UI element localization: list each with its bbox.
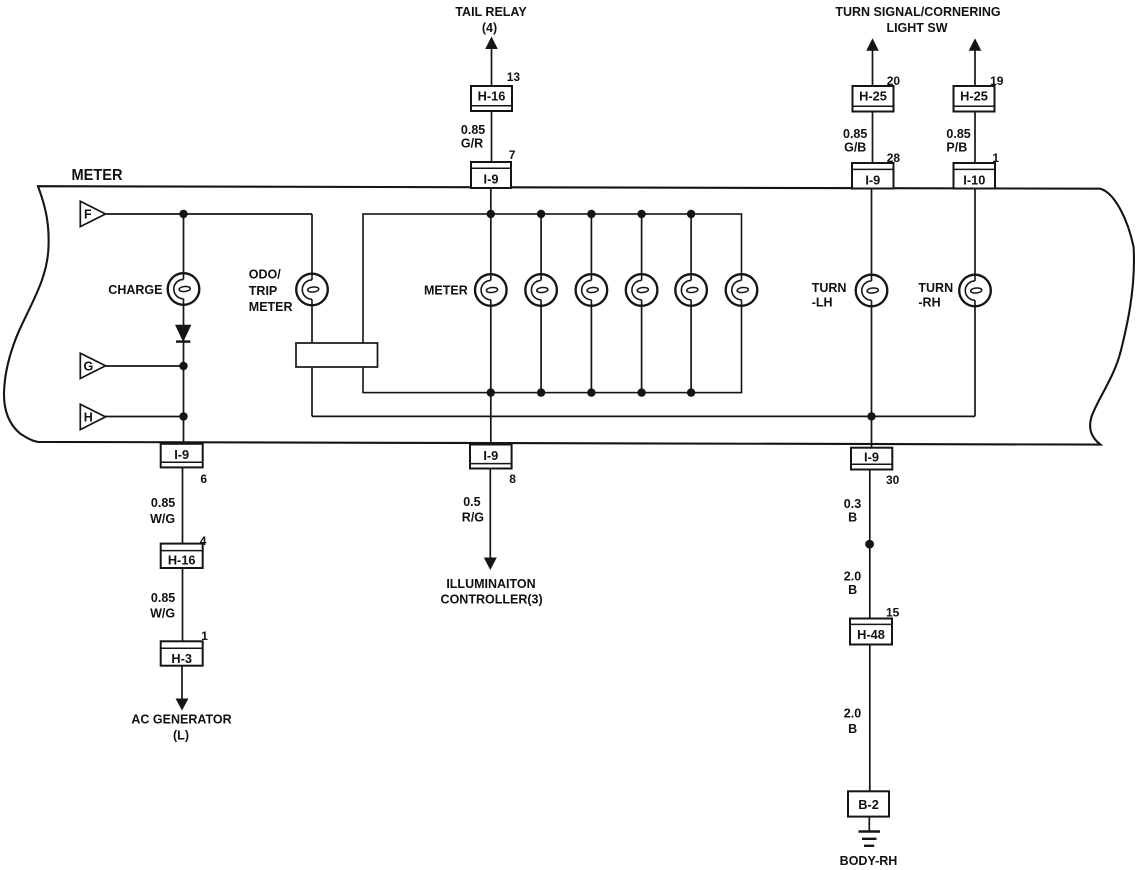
svg-text:H-25: H-25 (960, 88, 988, 103)
node top bus junction 4 (637, 210, 645, 218)
wire to H-25 pin 19 (974, 49, 976, 86)
svg-text:G: G (84, 360, 94, 374)
lamp CHARGE (168, 273, 200, 305)
METER component body outline (4, 186, 1134, 444)
svg-text:I-10: I-10 (963, 172, 985, 187)
svg-text:W/G: W/G (150, 607, 175, 621)
svg-text:B: B (848, 583, 857, 597)
wire to H-25 pin 20 (872, 49, 874, 86)
connector H-3 (161, 641, 203, 665)
svg-text:P/B: P/B (946, 141, 967, 155)
svg-text:2.0: 2.0 (844, 707, 861, 721)
wire H-16 to I-9 (491, 111, 493, 162)
svg-text:I-9: I-9 (174, 447, 189, 462)
connector I-9 pin 8 (box, bottom center) (470, 445, 512, 469)
svg-text:H-48: H-48 (857, 627, 885, 642)
arrow to illumination controller (484, 558, 497, 571)
svg-text:H: H (84, 411, 93, 425)
svg-text:ODO/: ODO/ (249, 268, 281, 282)
node bottom bus junction 5 (687, 388, 695, 396)
svg-text:13: 13 (507, 70, 521, 84)
terminal H (80, 404, 105, 429)
lamp meter 4 (626, 274, 658, 306)
node bottom bus junction 2 (537, 388, 545, 396)
svg-text:H-25: H-25 (859, 88, 887, 103)
svg-text:LIGHT SW: LIGHT SW (886, 21, 947, 35)
node top bus junction 2 (537, 210, 545, 218)
svg-text:BODY-RH: BODY-RH (840, 854, 898, 868)
wire odo branch vertical (311, 214, 313, 416)
wire turn-rh branch (974, 189, 976, 417)
connector I-10 pin 1 (box) (954, 163, 996, 189)
arrow to turn signal sw (left) (866, 38, 879, 51)
terminal G (80, 353, 105, 378)
svg-text:-RH: -RH (918, 296, 940, 310)
arrow to TAIL RELAY (485, 37, 498, 50)
svg-text:H-3: H-3 (171, 651, 192, 666)
svg-text:ILLUMINAITON: ILLUMINAITON (446, 577, 535, 591)
wire lamp drop 3 (590, 214, 592, 393)
wire from H to charge branch (104, 416, 184, 418)
svg-text:H-16: H-16 (478, 88, 506, 103)
svg-text:(4): (4) (482, 21, 497, 35)
svg-text:METER: METER (249, 300, 293, 314)
wire from G to charge branch (104, 365, 184, 367)
connector H-25 (left) (853, 86, 894, 112)
wire charge branch vertical (183, 214, 185, 444)
svg-text:B: B (848, 511, 857, 525)
resistor (odo/trip meter) (296, 343, 378, 367)
svg-text:METER: METER (424, 284, 468, 298)
arrow to AC GENERATOR (176, 699, 189, 711)
node bottom bus junction 4 (637, 388, 645, 396)
svg-text:-LH: -LH (812, 296, 833, 310)
connector H-25 (right) (954, 86, 995, 112)
wire lamp drop 5 (690, 214, 692, 393)
svg-text:0.85: 0.85 (843, 127, 867, 141)
svg-text:30: 30 (886, 473, 900, 487)
svg-text:G/R: G/R (461, 137, 483, 151)
svg-text:8: 8 (509, 472, 516, 486)
svg-text:W/G: W/G (150, 512, 175, 526)
connector H-16 (top) (471, 86, 512, 111)
node junction splice (865, 540, 874, 549)
node bottom bus junction 3 (587, 388, 595, 396)
svg-text:METER: METER (72, 167, 123, 184)
connector B-2 (848, 791, 889, 816)
svg-text:R/G: R/G (462, 511, 484, 525)
wire H-16 to H-3 (182, 568, 184, 641)
connector I-9 pin 28 (box) (852, 163, 894, 189)
connector I-9 (top center) (471, 162, 511, 188)
meter lamp bank frame (363, 214, 742, 393)
svg-text:G/B: G/B (844, 141, 866, 155)
lamp TURN-RH (959, 275, 991, 307)
svg-text:6: 6 (200, 472, 207, 486)
wire illumination bus bottom (odo to turn-rh) (312, 415, 975, 417)
connector I-9 pin 6 (box, bottom left) (161, 444, 203, 468)
svg-text:0.85: 0.85 (151, 591, 175, 605)
lamp ODO/TRIP METER (296, 274, 328, 306)
connector I-9 pin 30 (box, bottom right) (851, 448, 892, 470)
node junction G/charge (179, 362, 187, 370)
ground BODY-RH (859, 830, 881, 832)
svg-text:B: B (848, 722, 857, 736)
svg-text:AC GENERATOR: AC GENERATOR (131, 713, 231, 727)
connector H-16 (bottom left) (161, 544, 203, 568)
svg-text:I-9: I-9 (483, 448, 498, 463)
svg-text:H-16: H-16 (168, 553, 196, 568)
diode (charge circuit) (176, 325, 191, 341)
wire H-25 to I-9 (872, 112, 874, 164)
svg-text:0.85: 0.85 (151, 496, 175, 510)
svg-text:TRIP: TRIP (249, 284, 277, 298)
node top bus junction 3 (587, 210, 595, 218)
lamp TURN-LH (856, 275, 888, 307)
wire to H-16 pin 13 (491, 47, 493, 86)
svg-text:0.85: 0.85 (946, 127, 970, 141)
svg-text:F: F (84, 208, 92, 222)
node bottom bus junction 1 (487, 388, 495, 396)
svg-text:0.3: 0.3 (844, 497, 861, 511)
node junction F/charge (179, 210, 187, 218)
lamp meter 6 (726, 274, 758, 306)
wire splice to H-48 (869, 544, 871, 619)
node top bus junction 1 (487, 210, 495, 218)
svg-text:CONTROLLER(3): CONTROLLER(3) (441, 593, 543, 607)
wire I-9 to splice (869, 470, 871, 545)
svg-text:TURN: TURN (812, 281, 847, 295)
arrow to turn signal sw (right) (969, 38, 982, 51)
svg-text:TURN SIGNAL/CORNERING: TURN SIGNAL/CORNERING (835, 5, 1000, 19)
wire to AC generator (181, 666, 183, 700)
svg-text:TAIL RELAY: TAIL RELAY (455, 5, 527, 19)
terminal F (80, 201, 105, 226)
wire to ground (868, 817, 870, 832)
wire turn-lh branch (871, 189, 873, 449)
wire center branch (I-9 7 to I-9 8) (490, 188, 492, 445)
node junction turn-lh/illumination bus (867, 412, 875, 420)
lamp meter 5 (675, 274, 707, 306)
svg-text:0.5: 0.5 (463, 495, 480, 509)
lamp meter 3 (576, 274, 608, 306)
wire I-9 to H-16 (182, 467, 184, 543)
node junction H/charge (179, 412, 187, 420)
wire from F through node to ODO branch (104, 213, 312, 215)
svg-text:0.85: 0.85 (461, 123, 485, 137)
svg-text:I-9: I-9 (865, 172, 880, 187)
connector H-48 (850, 619, 892, 645)
lamp meter 1 (475, 274, 507, 306)
svg-text:7: 7 (509, 148, 516, 162)
wire lamp drop 4 (641, 214, 643, 393)
wire H-48 to B-2 (869, 645, 871, 792)
svg-text:CHARGE: CHARGE (108, 283, 162, 297)
node top bus junction 5 (687, 210, 695, 218)
svg-text:I-9: I-9 (484, 171, 499, 186)
wire lamp drop 2 (540, 214, 542, 393)
wire I-9 to illumination controller (489, 469, 491, 559)
lamp meter 2 (525, 274, 557, 306)
svg-text:TURN: TURN (918, 281, 953, 295)
svg-text:B-2: B-2 (858, 797, 879, 812)
svg-text:I-9: I-9 (864, 450, 879, 465)
wire H-25 to I-10 (974, 112, 976, 164)
svg-text:2.0: 2.0 (844, 569, 861, 583)
svg-text:(L): (L) (173, 729, 189, 743)
